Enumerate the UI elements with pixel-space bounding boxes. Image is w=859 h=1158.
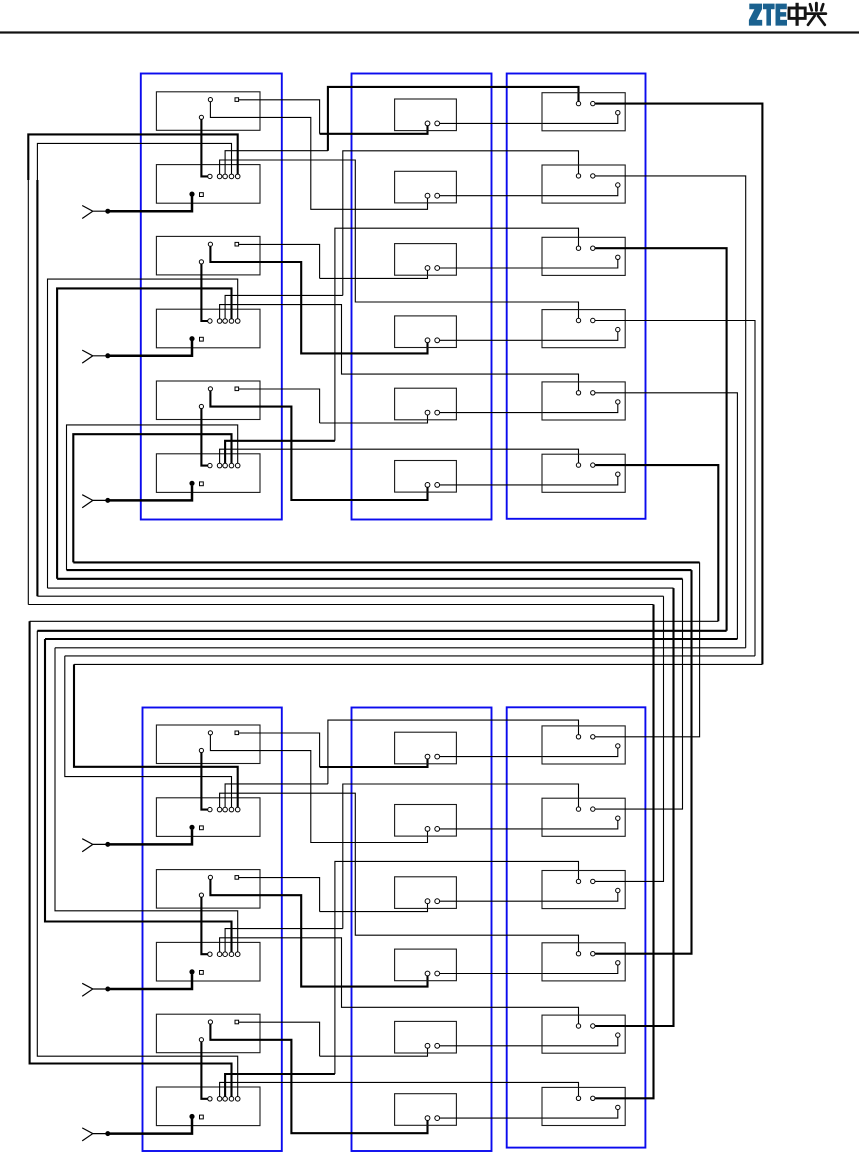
module R5 (C3 radio box) (542, 382, 625, 420)
pin A2.3 (199, 260, 203, 264)
wire F4 out to R4 pin3 (440, 332, 618, 341)
pin F10.1 (425, 971, 430, 976)
module A6 (C1 upper box) (156, 1014, 260, 1052)
pin R3.3 (616, 255, 620, 259)
pin A4.1 (208, 731, 212, 735)
pin B2.3 (223, 319, 228, 324)
module A5 (C1 upper box) (156, 870, 260, 909)
wire F7 out to R7 pin3 (440, 748, 618, 757)
pin R5.1 (576, 391, 580, 395)
wire A4 pinA2 out (239, 733, 320, 767)
wire net W1 left vertical lower part (27, 180, 29, 605)
sector frame column1 bottom (143, 708, 282, 1152)
wire A4 pinA3 down to B4 (201, 753, 207, 810)
wire net E1 west segment to bottom C1 group4 pin (74, 664, 238, 807)
module F3 (C2 filter box) (395, 244, 457, 276)
wire net E5 west segment to bottom C1 group5 pin (45, 639, 232, 952)
pin B3.aux (200, 482, 204, 486)
antenna ANT3 (82, 495, 106, 508)
module F1 (C2 filter box) (395, 99, 457, 131)
pin R7.3 (616, 744, 620, 748)
pin B1.aux (200, 193, 204, 197)
pin A5.3 (199, 893, 203, 897)
pin R1.2 (591, 101, 595, 105)
wire net E5 bus segment (45, 638, 737, 640)
wire F5 out to R5 pin3 (440, 404, 618, 413)
pin R3.1 (576, 246, 580, 250)
module F8 (C2 filter box) (395, 805, 457, 837)
wire A4 pinA1 to C2 row8 in (210, 735, 427, 843)
pin B1.5 (235, 174, 240, 179)
pin B1.ant (190, 192, 194, 196)
module R2 (C3 radio box) (542, 165, 625, 203)
pin B5.ant (190, 970, 194, 974)
module A1 (C1 upper box) (156, 92, 260, 131)
module R1 (C3 radio box) (542, 93, 625, 131)
wire B6 pin1 to C3 row12 in (220, 1082, 579, 1096)
antenna ANT3 feed point (106, 498, 110, 502)
wire A4 pinA2 to C2 row7 in (320, 759, 428, 767)
pin B6.5 (235, 1097, 240, 1102)
wire B5 pin2 riser (225, 929, 343, 952)
pin R5.3 (616, 400, 620, 404)
module F5 (C2 filter box) (395, 388, 457, 420)
wire net W4 east segment to bottom C3 pin2 (595, 579, 682, 809)
module R4 (C3 radio box) (542, 310, 625, 348)
pin B1.1 (208, 174, 212, 178)
module R8 (C3 radio box) (542, 798, 625, 836)
pin B3.1 (208, 463, 212, 467)
pin R4.1 (576, 318, 580, 322)
pin A6.1 (208, 1020, 212, 1024)
module F2 (C2 filter box) (395, 171, 457, 203)
pin B5.aux (200, 971, 204, 975)
wire B5 pin2 to C3 row8 in (343, 784, 579, 929)
pin F8.2 (435, 827, 440, 832)
antenna ANT2 (82, 350, 106, 363)
pin R12.3 (616, 1105, 620, 1109)
wire net W6 bus segment (73, 561, 699, 563)
wire ANT1 feed to B1 (108, 196, 192, 211)
pin A4.2 (235, 731, 239, 735)
antenna ANT4 feed point (106, 842, 110, 846)
pin A4.3 (199, 748, 203, 752)
module F9 (C2 filter box) (395, 877, 457, 909)
wire net W3 bus segment (48, 587, 674, 589)
wire top C3 row6 pin2 out (net E6 east segment) (595, 465, 718, 621)
pin B6.4 (229, 1097, 234, 1102)
pin F2.1 (425, 193, 430, 198)
wire net W2 east segment to bottom C3 pin2 (595, 596, 663, 881)
pin A5.2 (235, 876, 239, 880)
wire A6 pinA2 out (239, 1022, 320, 1056)
pin R6.1 (576, 463, 580, 467)
wire C1 group3 west pin 231.5 out (net W6 west segment) (73, 434, 231, 562)
module A4 (C1 upper box) (156, 725, 260, 764)
wire net W2 left vertical lower part (36, 180, 38, 596)
wire net W3 east segment to bottom C3 pin2 (595, 588, 673, 1026)
pin B5.1 (208, 952, 212, 956)
wire net E2 bus segment (55, 647, 746, 649)
wire net E6 west segment to bottom C1 group6 pin (30, 621, 232, 1096)
wire A1 pinA2 to C2 row1 in (320, 126, 428, 134)
wire A5 pinA3 down to B5 (201, 897, 207, 954)
module F6 (C2 filter box) (395, 461, 457, 493)
wire A6 pinA2 to C2 row11 in (320, 1048, 428, 1056)
wire B2 pin2 to C3 row2 in (343, 151, 579, 296)
module R11 (C3 radio box) (542, 1015, 625, 1053)
wire F3 out to R3 pin3 (440, 260, 618, 269)
pin F3.2 (435, 266, 440, 271)
pin B5.5 (235, 952, 240, 957)
pin A3.3 (199, 404, 203, 408)
module F11 (C2 filter box) (395, 1021, 457, 1053)
pin F8.1 (425, 827, 430, 832)
pin R11.2 (591, 1024, 595, 1028)
pin B5.2 (217, 952, 222, 957)
pin A6.3 (199, 1038, 203, 1042)
pin R3.2 (591, 246, 595, 250)
pin A5.1 (208, 875, 212, 879)
pin R6.3 (616, 472, 620, 476)
pin B4.aux (200, 826, 204, 830)
module B1 (C1 lower box) (156, 165, 260, 204)
wire C1 group2 west pin 237.7 out (net W3 west segment) (48, 279, 238, 588)
module R6 (C3 radio box) (542, 454, 625, 492)
antenna ANT5 (82, 983, 106, 996)
pin R8.1 (576, 807, 580, 811)
pin F1.1 (425, 121, 430, 126)
module B4 (C1 lower box) (156, 798, 260, 837)
wire F12 out to R12 pin3 (440, 1110, 618, 1119)
sector frame column2 bottom (352, 708, 492, 1152)
pin F3.1 (425, 266, 430, 271)
antenna ANT6 (82, 1128, 106, 1141)
pin B5.4 (229, 952, 234, 957)
wire top C3 row5 pin2 out (net E5 east segment) (595, 393, 737, 639)
wire top C3 row1 pin2 out (net E1 east segment) (595, 104, 762, 665)
wire A1 pinA1 to C2 row2 in (210, 102, 427, 210)
pin R11.1 (576, 1024, 580, 1028)
module B2 (C1 lower box) (156, 309, 260, 348)
wire net W6 east segment to bottom C3 pin2 (595, 562, 699, 736)
pin A2.2 (235, 242, 239, 246)
antenna ANT4 (82, 839, 106, 852)
pin A1.3 (199, 115, 203, 119)
pin B3.ant (190, 481, 194, 485)
wire top C3 row3 pin2 out (net E3 east segment) (595, 248, 726, 631)
pin B3.4 (229, 463, 234, 468)
wire F9 out to R9 pin3 (440, 893, 618, 902)
pin R4.3 (616, 327, 620, 331)
wire net E6 bus segment (30, 620, 719, 622)
module B5 (C1 lower box) (156, 942, 260, 981)
pin B2.4 (229, 319, 234, 324)
pin R5.2 (591, 391, 595, 395)
pin A1.1 (208, 98, 212, 102)
wire A5 pinA1 to C2 row10 in (210, 880, 427, 987)
wire A3 pinA1 to C2 row6 in (210, 391, 427, 500)
wire F1 out to R1 pin3 (440, 115, 618, 124)
pin R10.1 (576, 952, 580, 956)
wire B4 pin1 to C3 row10 in (220, 793, 579, 951)
logo hanzi zhong (789, 3, 805, 26)
pin F5.2 (435, 410, 440, 415)
pin F11.1 (425, 1043, 430, 1048)
wire B6 pin2 to C3 row9 in (335, 861, 579, 1074)
pin B1.4 (229, 174, 234, 179)
logo letter Z (749, 4, 762, 26)
module R12 (C3 radio box) (542, 1087, 625, 1125)
pin B4.2 (217, 807, 222, 812)
antenna ANT2 feed point (106, 354, 110, 358)
wire B5 pin1 to C3 row11 in (220, 938, 579, 1024)
pin F11.2 (435, 1043, 440, 1048)
pin B4.3 (223, 807, 228, 812)
pin F7.1 (425, 754, 430, 759)
pin R2.2 (591, 174, 595, 178)
pin R9.1 (576, 879, 580, 883)
wire A2 pinA2 to C2 row3 in (320, 270, 428, 278)
wire A3 pinA2 to C2 row5 in (320, 415, 428, 423)
module F4 (C2 filter box) (395, 316, 457, 348)
pin R9.2 (591, 879, 595, 883)
pin R7.1 (576, 735, 580, 739)
pin F9.1 (425, 899, 430, 904)
wire A3 pinA2 out (239, 389, 320, 423)
wire F8 out to R8 pin3 (440, 820, 618, 829)
wire net E4 west segment to bottom C1 group4 pin (65, 656, 232, 808)
pin B6.1 (208, 1097, 212, 1101)
pin R8.2 (591, 807, 595, 811)
wire B1 pin1 to C3 row4 in (220, 160, 579, 318)
pin B1.2 (217, 174, 222, 179)
module B3 (C1 lower box) (156, 454, 260, 493)
pin R12.1 (576, 1096, 580, 1100)
pin R1.1 (576, 101, 580, 105)
pin A1.2 (235, 98, 239, 102)
wire net E2 west segment to bottom C1 group5 pin (55, 648, 238, 952)
wire A6 pinA3 down to B6 (201, 1042, 207, 1099)
module A2 (C1 upper box) (156, 236, 260, 275)
wire F10 out to R10 pin3 (440, 965, 618, 974)
module B6 (C1 lower box) (156, 1087, 260, 1126)
logo hanzi xing (807, 3, 826, 25)
pin B2.1 (208, 319, 212, 323)
wire A1 pinA2 out (239, 100, 320, 134)
wire ANT4 feed to B4 (108, 830, 192, 845)
wire net W1 east segment to bottom C3 pin2 (595, 605, 653, 1099)
pin F7.2 (435, 754, 440, 759)
pin B6.3 (223, 1097, 228, 1102)
pin R10.2 (591, 952, 595, 956)
wire F11 out to R11 pin3 (440, 1037, 618, 1046)
wire net E3 west segment to bottom C1 group6 pin (37, 631, 237, 1097)
module F7 (C2 filter box) (395, 732, 457, 764)
wire ANT3 feed to B3 (108, 486, 192, 501)
pin F5.1 (425, 410, 430, 415)
sector frame column2 top (352, 74, 492, 520)
wire A2 pinA1 to C2 row4 in (210, 246, 427, 353)
wire A6 pinA1 to C2 row12 in (210, 1024, 427, 1133)
wire net W1 bus segment (28, 604, 653, 606)
module A3 (C1 upper box) (156, 381, 260, 420)
wire A2 pinA3 down to B2 (201, 264, 207, 321)
pin B5.3 (223, 952, 228, 957)
pin F4.1 (425, 338, 430, 343)
wire net E4 bus segment (65, 655, 755, 657)
module R9 (C3 radio box) (542, 871, 625, 909)
wire F2 out to R2 pin3 (440, 187, 618, 196)
pin B2.2 (217, 319, 222, 324)
wire B1 pin2 to C3 row1 in (328, 87, 579, 151)
pin R10.3 (616, 961, 620, 965)
pin B3.5 (235, 463, 240, 468)
wire ANT2 feed to B2 (108, 341, 192, 356)
pin F12.2 (435, 1116, 440, 1121)
pin A2.1 (208, 242, 212, 246)
wire A3 pinA3 down to B3 (201, 409, 207, 466)
antenna ANT5 feed point (106, 987, 110, 991)
wire C1 group3 west pin 237.7 out (net W5 west segment) (67, 425, 238, 570)
wire B1 pin2 riser (225, 151, 328, 175)
logo letter E (776, 4, 788, 26)
pin B2.ant (190, 337, 194, 341)
pin F1.2 (435, 121, 440, 126)
pin B1.3 (223, 174, 228, 179)
pin R2.3 (616, 183, 620, 187)
pin F10.2 (435, 971, 440, 976)
wire net W5 bus segment (67, 569, 692, 571)
wire B2 pin1 to C3 row5 in (220, 305, 579, 391)
pin R2.1 (576, 174, 580, 178)
pin B4.5 (235, 807, 240, 812)
logo letter T (763, 4, 775, 26)
wire B2 pin2 riser (225, 295, 343, 318)
pin R8.3 (616, 816, 620, 820)
pin R7.2 (591, 735, 595, 739)
pin B6.2 (217, 1097, 222, 1102)
wire net W2 bus segment (37, 595, 663, 597)
pin F12.1 (425, 1116, 430, 1121)
wire net E3 bus segment (37, 630, 726, 632)
module R10 (C3 radio box) (542, 943, 625, 981)
wire B6 pin2 riser (225, 1074, 335, 1097)
pin B2.aux (200, 337, 204, 341)
pin F6.1 (425, 483, 430, 488)
wire A5 pinA2 out (239, 878, 320, 912)
wire B4 pin2 riser (225, 784, 328, 808)
pin B2.5 (235, 319, 240, 324)
wire B3 pin1 to C3 row6 in (220, 449, 579, 463)
pin F2.2 (435, 193, 440, 198)
wire net W4 bus segment (57, 578, 682, 580)
pin R9.3 (616, 888, 620, 892)
wire top C3 row2 pin2 out (net E2 east segment) (595, 176, 746, 648)
wire B3 pin2 to C3 row3 in (335, 228, 579, 441)
module F10 (C2 filter box) (395, 949, 457, 981)
pin B3.3 (223, 463, 228, 468)
antenna ANT6 feed point (106, 1132, 110, 1136)
wire B4 pin2 to C3 row7 in (328, 720, 579, 784)
module F12 (C2 filter box) (395, 1094, 457, 1126)
wire A5 pinA2 to C2 row9 in (320, 904, 428, 912)
pin R12.2 (591, 1096, 595, 1100)
wire A1 pinA3 down to B1 (201, 120, 207, 177)
wire net W5 east segment to bottom C3 pin2 (595, 570, 691, 954)
wire ANT5 feed to B5 (108, 974, 192, 989)
pin A3.2 (235, 387, 239, 391)
pin B4.1 (208, 807, 212, 811)
antenna ANT1 feed point (106, 209, 110, 213)
sector frame column1 top (141, 74, 282, 520)
wire net E1 bus segment (74, 663, 762, 665)
header rule (0, 31, 859, 33)
pin F4.2 (435, 338, 440, 343)
module R7 (C3 radio box) (542, 726, 625, 764)
wire F6 out to R6 pin3 (440, 476, 618, 485)
pin B6.ant (190, 1114, 194, 1118)
pin F6.2 (435, 483, 440, 488)
pin R1.3 (616, 111, 620, 115)
pin F9.2 (435, 899, 440, 904)
pin A6.2 (235, 1020, 239, 1024)
pin B4.ant (190, 825, 194, 829)
pin R4.2 (591, 318, 595, 322)
antenna ANT1 (82, 206, 106, 219)
wire B3 pin2 riser (225, 441, 335, 464)
pin B3.2 (217, 463, 222, 468)
module R3 (C3 radio box) (542, 237, 625, 275)
wire top C3 row4 pin2 out (net E4 east segment) (595, 321, 755, 656)
wire ANT6 feed to B6 (108, 1119, 192, 1134)
sector frame column3 top (507, 74, 646, 519)
pin B6.aux (200, 1115, 204, 1119)
pin A3.1 (208, 387, 212, 391)
wire C1 group1 west pin 231.5 out (net W2 west segment) (37, 143, 231, 180)
pin R6.2 (591, 463, 595, 467)
wire C1 group1 west pin 237.7 out (net W1 west segment) (28, 134, 237, 180)
sector frame column3 bottom (507, 707, 646, 1147)
wire A2 pinA2 out (239, 244, 320, 278)
pin R11.3 (616, 1033, 620, 1037)
wire C1 group2 west pin 231.5 out (net W4 west segment) (57, 288, 231, 578)
pin B4.4 (229, 807, 234, 812)
